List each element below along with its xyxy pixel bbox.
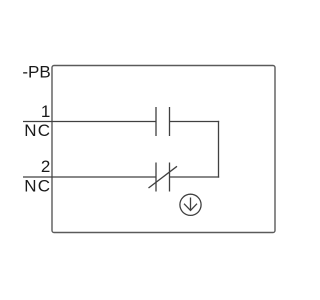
wire contact 2 to link bbox=[170, 176, 220, 178]
actuator arrow head bbox=[184, 204, 197, 211]
enclosure outline bbox=[52, 66, 275, 233]
contact K1 bar left bbox=[155, 107, 157, 136]
wire terminal 2 bbox=[23, 176, 156, 178]
svg-text:NC: NC bbox=[24, 177, 51, 196]
svg-text:-PB: -PB bbox=[22, 63, 50, 82]
actuator circle bbox=[180, 194, 201, 215]
actuator arrow shaft bbox=[190, 198, 192, 211]
svg-text:NC: NC bbox=[24, 121, 51, 140]
contact K1 bar right bbox=[169, 107, 171, 136]
contact K2 NC slash bbox=[149, 166, 178, 188]
contact K2 bar right bbox=[169, 163, 171, 192]
svg-text:1: 1 bbox=[41, 102, 50, 121]
wire terminal 1 bbox=[23, 121, 156, 123]
wire contact 1 to link bbox=[170, 121, 220, 123]
wire internal link bbox=[218, 121, 220, 178]
svg-text:2: 2 bbox=[41, 157, 50, 176]
contact K2 bar left bbox=[155, 163, 157, 192]
